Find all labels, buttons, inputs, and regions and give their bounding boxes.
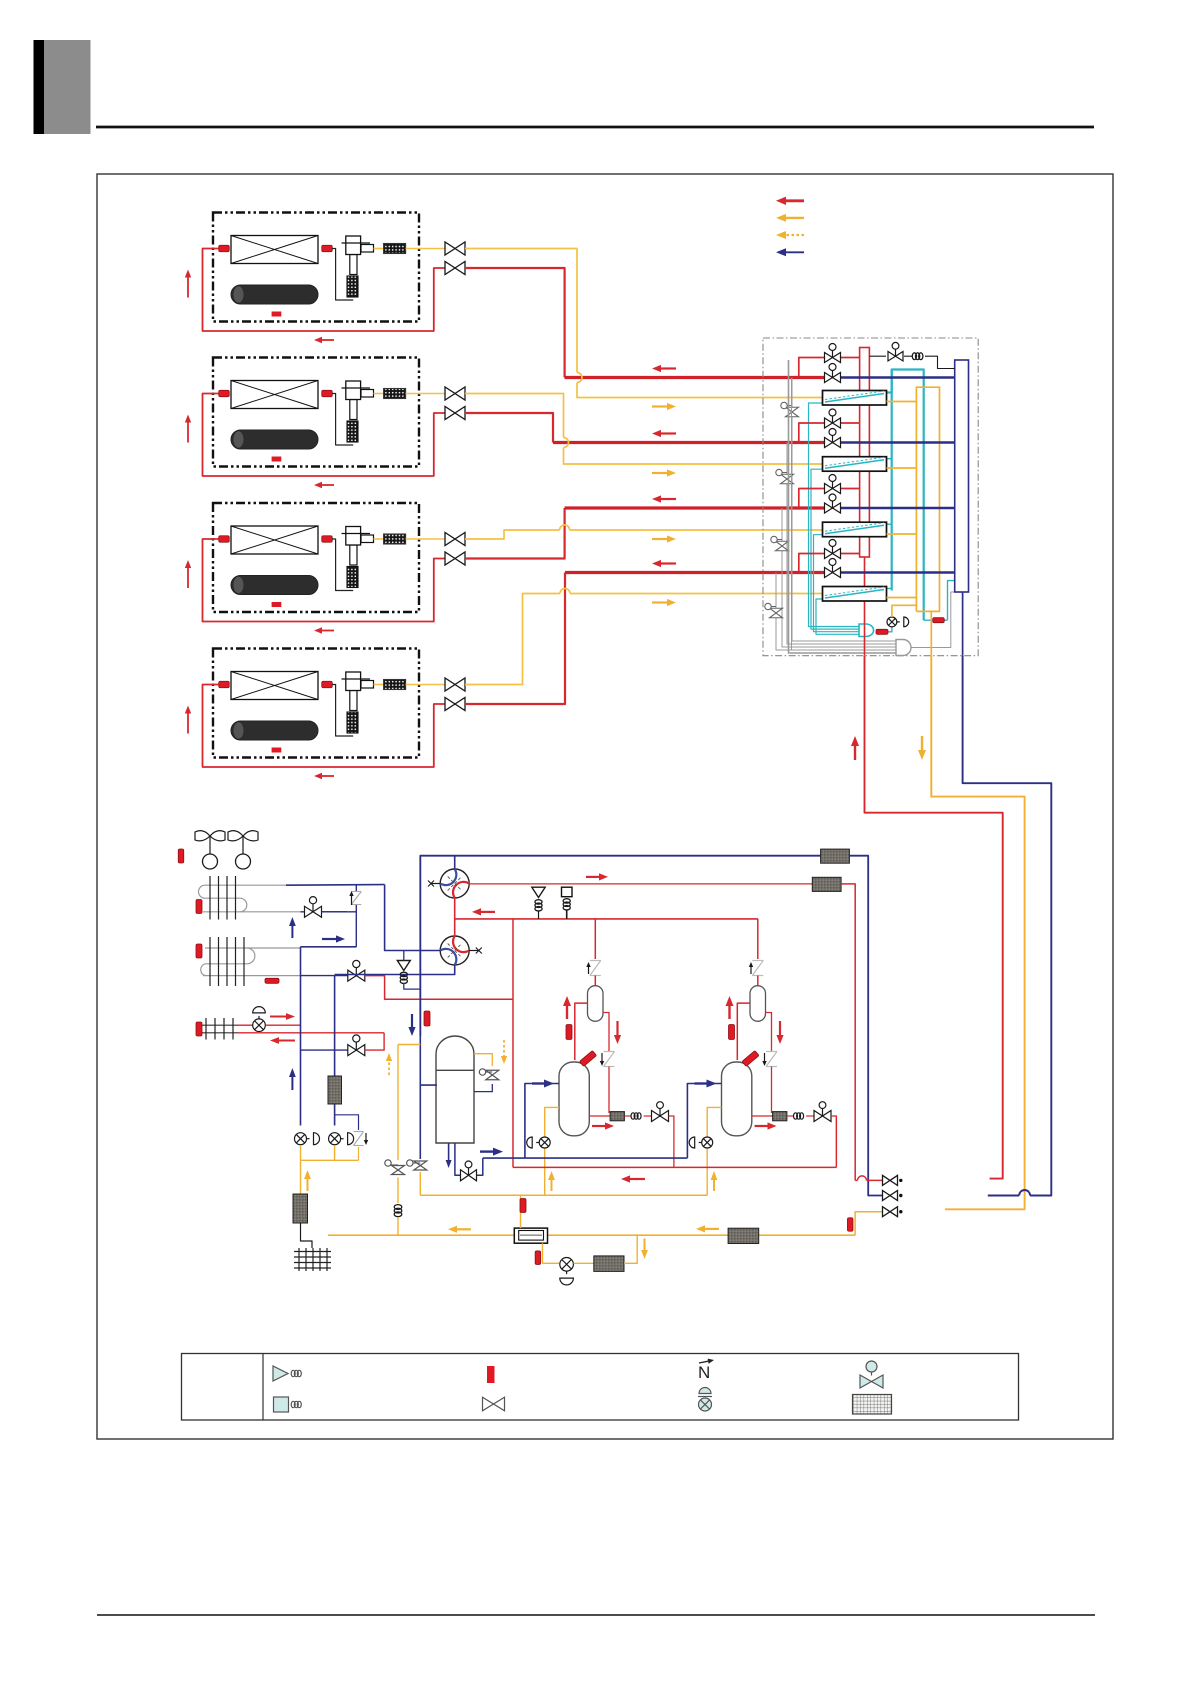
HR liquid solenoid valve 4 — [825, 549, 833, 559]
ODU coil 2 liquid valve — [301, 975, 349, 977]
HR subcool return line 3 — [814, 535, 860, 632]
indoor unit 1 fan sensor — [272, 312, 282, 317]
flow arrow red up — [854, 746, 856, 760]
ODU compressor 1 oil inject (yellow) — [545, 1107, 559, 1195]
indoor unit 4 EEV piping — [332, 685, 353, 737]
ODU discharge strainer (triangle) — [532, 887, 545, 897]
HR gas solenoid valve 1 — [825, 373, 833, 383]
legend arrow low-pressure gas (navy) — [786, 251, 804, 253]
indoor unit 1 flow arrow up — [187, 278, 189, 298]
indoor unit 4 EEV strainer — [347, 712, 358, 733]
HR subcool sight glass — [889, 627, 892, 632]
flow arrow yellow unit 2 — [652, 472, 667, 474]
HR gas branch section 4 (navy) — [824, 572, 841, 574]
ODU high pressure gas service valve — [883, 1175, 891, 1185]
indoor unit 1 cabinet — [213, 213, 419, 322]
flow arrow red unit 3 — [661, 498, 676, 500]
ODU accumulator outlet valve — [461, 1170, 469, 1181]
ODU oil sight glass 2 — [702, 1137, 713, 1148]
indoor unit 4 heat exchanger coil — [231, 672, 318, 700]
flow arrow red right 1 — [592, 1125, 605, 1127]
ODU riser B strainer — [328, 1076, 342, 1104]
HR gas line HX2 to suction header — [887, 467, 917, 469]
HR subcool gas return (yellow) — [892, 605, 917, 617]
ODU oil return strainer 2 — [773, 1112, 787, 1121]
ODU plate heat exchanger — [514, 1228, 547, 1243]
flow arrow red up 2 — [728, 1006, 730, 1019]
ODU fan sensor — [178, 849, 184, 863]
footer rule — [97, 1614, 1095, 1616]
ODU compressor 2 oil inject (yellow) — [707, 1107, 721, 1195]
ODU oil equalize tee (yellow) — [398, 1044, 420, 1046]
indoor unit 1 gas pipe out — [406, 248, 445, 250]
flow arrow yellow left 1 — [457, 1228, 471, 1230]
ODU coil 2 to liquid line (red) — [365, 976, 513, 1000]
ODU plate HX feed (yellow) — [520, 1195, 522, 1228]
ODU discharge check valve 1 — [590, 960, 601, 962]
indoor unit 2 cabinet — [213, 358, 419, 467]
indoor unit 1 EEV piping — [332, 249, 353, 301]
HR equalizer capillary coil — [904, 355, 912, 357]
svg-text:N: N — [698, 1363, 710, 1382]
ODU accumulator — [436, 1036, 474, 1143]
flow arrow navy down 1 — [411, 1014, 413, 1027]
indoor unit 1 liquid service valve — [445, 262, 455, 275]
HR service valve section 1 — [786, 407, 799, 412]
ODU suction manifold (navy) — [483, 1157, 688, 1159]
ODU coil 3 liquid return (red) — [238, 1032, 384, 1034]
ODU discharge branch 1 — [594, 919, 596, 959]
indoor unit 4 EEV stem — [350, 691, 357, 711]
indoor unit 4 fan roll — [231, 721, 318, 740]
indoor unit 3 EEV stem — [350, 545, 357, 565]
HR subcool heat exchanger 2 — [823, 457, 887, 472]
flow arrow yellow dashed up — [388, 1061, 390, 1075]
flow arrow navy right 2 — [695, 1082, 707, 1084]
ODU oil return valve 2 — [806, 1115, 813, 1117]
ODU suction gas service valve — [883, 1191, 891, 1201]
indoor unit 2 heat exchanger coil — [231, 381, 318, 409]
indoor unit 3 gas pipe out — [406, 538, 445, 540]
ODU plate HX feed sensor — [520, 1199, 526, 1213]
ODU compressor 1 top sensor — [579, 1051, 596, 1067]
flow arrow yellow down 2 — [644, 1239, 646, 1251]
4wv1 right port / discharge line (red thin) — [469, 883, 812, 885]
indoor unit 3 pipe sensor right — [322, 536, 333, 543]
indoor unit 2 gas service valve — [445, 387, 455, 400]
4wv1 top port — [454, 856, 456, 869]
liquid pipe unit 1 to HR box (red) — [465, 268, 565, 378]
indoor unit 2 pipe sensor left — [219, 390, 230, 397]
ODU discharge strainer — [812, 877, 841, 891]
indoor unit 1 pipe sensor left — [219, 245, 230, 252]
ODU oil collector line (yellow) — [300, 1145, 302, 1160]
ODU accumulator sensor — [424, 1011, 430, 1026]
HR liquid header (red) — [860, 348, 870, 558]
ODU oil separator 1 return — [603, 1013, 609, 1052]
indoor unit 1 EEV stem — [350, 255, 357, 275]
HR gas branch section 1 (navy) — [824, 377, 841, 379]
ODU oil return main riser — [835, 1116, 837, 1167]
HR service valve section 2 — [781, 474, 794, 479]
header rule — [96, 126, 1094, 129]
HR low pressure header outlet — [962, 592, 964, 656]
HR teal outlet sensor — [924, 619, 948, 621]
flow arrow yellow dashed down — [503, 1040, 505, 1056]
flow arrow red right 2 — [586, 876, 599, 878]
HR capillary line section 4 — [776, 573, 896, 651]
HR gas solenoid valve 2 — [825, 438, 833, 448]
ODU four-way valve 2 — [440, 936, 469, 965]
indoor unit 1 EEV strainer — [347, 276, 358, 297]
HR teal line to gas header — [948, 581, 955, 621]
ODU heat exchanger coil 1 — [205, 884, 286, 886]
HR service valve section 3 — [776, 541, 789, 546]
ODU defrost branch (red) — [365, 1033, 384, 1050]
ODU discharge header (red) — [455, 898, 758, 919]
ODU oil return capillary 1 — [624, 1115, 630, 1117]
indoor unit 3 pipe sensor left — [219, 536, 230, 543]
indoor unit 2 EEV stem — [350, 400, 357, 420]
HR capillary pair lines — [789, 360, 897, 653]
HR subcool return line 1 — [809, 403, 860, 627]
flow arrow red unit 4 — [661, 562, 676, 564]
legend arrow liquid (yellow) — [786, 217, 804, 219]
ODU liquid main (yellow) — [328, 1234, 514, 1236]
ODU oil return drop 1 — [669, 1116, 674, 1167]
HR capillary line section 1 — [792, 378, 896, 642]
ODU oil separator 2 inlet pipe — [737, 1003, 750, 1060]
indoor unit 3 EEV body — [346, 527, 361, 546]
indoor unit 4 gas pipe out — [406, 684, 445, 686]
ODU accumulator outlet trap — [455, 1143, 461, 1175]
ODU oil separator 1 inlet pipe — [575, 1003, 588, 1060]
ODU liquid service valve — [883, 1207, 891, 1217]
ODU oil return main (red) — [513, 1166, 836, 1168]
ODU oil separator 1 — [588, 986, 604, 1022]
indoor unit 2 gas-line strainer — [374, 393, 384, 395]
legend symbol fan motor — [273, 1366, 288, 1381]
indoor unit 2 liquid service valve — [445, 407, 455, 420]
ODU navy link coil1 — [301, 946, 357, 948]
ODU coil 3 sensor — [196, 1022, 202, 1036]
HR suction gas header (yellow U) — [916, 387, 939, 611]
legend symbol expansion valve — [699, 1388, 711, 1394]
HR gas line HX1 to suction header — [887, 401, 917, 403]
indoor unit 2 EEV strainer — [347, 421, 358, 442]
ODU dryer loop sensor — [535, 1251, 541, 1265]
flow arrow red up 1 — [566, 1006, 568, 1019]
HR subcool return line 4 — [816, 599, 859, 634]
indoor unit 2 flow arrow left — [322, 484, 334, 486]
legend symbol service valve — [866, 1361, 877, 1372]
HR liquid solenoid valve 1 — [825, 353, 833, 363]
ODU fan 2 — [228, 831, 243, 841]
flow arrow navy up 1 — [291, 926, 293, 938]
HR capillary line section 3 — [782, 508, 896, 647]
indoor unit 3 fan roll — [231, 576, 318, 595]
liquid pipe unit 4 to HR box (red) — [465, 573, 565, 705]
ODU dryer loop (yellow) — [543, 1243, 560, 1263]
ODU oil return capillary 2 — [787, 1115, 793, 1117]
indoor unit 1 EEV body — [346, 236, 361, 255]
ODU oil return line 1 — [589, 1115, 610, 1117]
flow arrow navy right low — [480, 1150, 493, 1152]
HR oil collector header — [896, 640, 911, 656]
ODU yellow drop capillary — [394, 1205, 402, 1210]
flow arrow red left — [279, 1040, 295, 1042]
HR subcool return line 2 — [811, 469, 859, 629]
legend symbol strainer — [853, 1395, 892, 1415]
indoor unit 2 flow arrow up — [187, 423, 189, 443]
flow arrow yellow left 2 — [705, 1228, 719, 1230]
indoor unit 4 cabinet — [213, 649, 419, 758]
HR gas line HX4 to suction header — [887, 597, 917, 599]
flow arrow red unit 1 — [661, 367, 676, 369]
HR gas branch section 3 (navy) — [824, 507, 841, 509]
ODU heat exchanger coil 3 — [203, 1024, 238, 1026]
ODU suction to service valve — [849, 856, 883, 1196]
ODU defrost branch valve — [301, 1049, 349, 1051]
HR liquid branch section 1 — [799, 358, 825, 378]
ODU coil 1 sensor — [196, 900, 202, 914]
gas pipe unit 2 to HR box (yellow) — [465, 394, 564, 438]
HR subcool heat exchanger 1 — [823, 391, 887, 406]
HR gas line HX3 to suction header — [887, 533, 917, 535]
main liquid run (red) HR to service valves — [865, 656, 1003, 1179]
indoor unit 3 EEV piping — [332, 539, 353, 591]
gas pipe unit 4 to HR box (yellow) — [465, 594, 560, 685]
ODU discharge branch 2 — [757, 919, 759, 959]
ODU coil 2 sensor 2 — [265, 978, 279, 983]
HR teal collector sensor — [876, 629, 888, 634]
indoor unit 4 liquid pipe out — [203, 685, 446, 768]
HR liquid branch section 3 — [799, 489, 825, 509]
indoor unit 2 liquid pipe out — [203, 394, 446, 477]
HR gas solenoid valve 3 — [825, 503, 833, 513]
ODU navy riser A — [300, 947, 302, 1126]
ODU liquid to service valve — [855, 1212, 883, 1236]
indoor unit 4 pipe sensor right — [322, 681, 333, 688]
ODU oil return check valve 2 — [766, 1051, 777, 1053]
indoor unit 1 gas-line strainer — [374, 248, 384, 250]
flow arrow yellow up 2 — [713, 1180, 715, 1191]
ODU check valve to suction — [335, 1115, 359, 1130]
ODU navy riser B — [334, 975, 336, 1126]
ODU yellow drop valve — [392, 1166, 405, 1171]
indoor unit 3 fan sensor — [272, 602, 282, 607]
indoor unit 2 fan sensor — [272, 457, 282, 462]
liquid pipe unit 2 to HR box (red) — [465, 413, 553, 443]
indoor unit 4 gas service valve — [445, 678, 455, 691]
diagram frame — [97, 174, 1113, 1439]
ODU accumulator bypass — [474, 1054, 492, 1066]
HR subcool heat exchanger 4 — [823, 587, 887, 602]
ODU discharge sensor 1 — [566, 1025, 572, 1040]
HR subcool feed 3 — [887, 523, 892, 525]
HR liquid solenoid valve 2 — [825, 418, 833, 428]
header black tab — [34, 40, 45, 134]
indoor unit 2 pipe sensor right — [322, 390, 333, 397]
ODU high pressure switch — [562, 887, 573, 897]
flow arrow yellow unit 4 — [652, 601, 667, 603]
indoor unit 4 EEV body — [346, 672, 361, 691]
ODU oil separator 2 return — [766, 1013, 772, 1052]
ODU compressor 2 — [722, 1062, 752, 1136]
indoor unit 3 liquid pipe out — [203, 539, 446, 622]
ODU discharge check valve 2 — [752, 960, 763, 962]
legend divider — [262, 1354, 264, 1421]
ODU coil 2 sensor — [196, 944, 202, 958]
legend symbol heater — [274, 1397, 289, 1412]
ODU suction-yellow link valve — [419, 1085, 421, 1159]
HR teal riser main — [887, 370, 924, 621]
ODU compressor 2 top sensor — [742, 1051, 759, 1067]
legend symbol sensor — [487, 1366, 495, 1383]
flow arrow yellow up small — [307, 1179, 309, 1191]
HR capillary line section 2 — [787, 443, 896, 645]
ODU oil return sight glass 2 — [329, 1133, 341, 1145]
ODU suction strainer (triangle) below 4wv2 line — [397, 961, 410, 971]
ODU liquid drop from header — [512, 919, 514, 999]
ODU oil return strainer 1 — [610, 1112, 624, 1121]
indoor unit 2 EEV piping — [332, 394, 353, 446]
HR liquid branch section 4 — [799, 554, 825, 573]
indoor unit 4 flow arrow left — [322, 775, 334, 777]
HR low pressure gas header (navy) — [955, 360, 969, 592]
flow arrow yellow unit 1 — [652, 405, 667, 407]
indoor unit 3 EEV strainer — [347, 567, 358, 588]
ODU oil return check valve 1 — [604, 1051, 615, 1053]
flow arrow yellow up 1 — [551, 1180, 553, 1191]
liquid pipe unit 3 to HR box (red) — [465, 508, 565, 559]
indoor unit 1 gas service valve — [445, 242, 455, 255]
flow arrow navy right — [322, 938, 336, 940]
indoor unit 2 fan roll — [231, 430, 318, 449]
HR service valve section 4 — [770, 608, 783, 613]
indoor unit 1 fan roll — [231, 285, 318, 304]
ODU oil return sight glass 1 — [295, 1133, 307, 1145]
ODU fan 1 — [195, 831, 210, 841]
HR gas solenoid valve 4 — [825, 568, 833, 578]
ODU oil inject manifold (yellow) — [420, 1194, 707, 1196]
indoor unit 1 pipe sensor right — [322, 245, 333, 252]
HR subcool feed 2 — [887, 458, 892, 460]
indoor unit 1 heat exchanger coil — [231, 236, 318, 264]
ODU oil return drop 2 — [831, 1116, 836, 1167]
indoor unit 4 fan sensor — [272, 748, 282, 753]
indoor unit 4 flow arrow up — [187, 714, 189, 734]
indoor unit 2 EEV body — [346, 381, 361, 400]
ODU oil cooler coil — [301, 1223, 313, 1248]
ODU coil 3 expansion valve — [238, 1024, 253, 1026]
HR subcool heat exchanger 3 — [823, 522, 887, 537]
indoor unit 1 flow arrow left — [322, 339, 334, 341]
ODU discharge to service valve — [841, 884, 855, 1181]
legend arrow subcool liquid (yellow dashed) — [786, 234, 804, 236]
ODU coil 1 gas line (navy) — [286, 884, 385, 887]
4wv2 bottom port — [335, 965, 455, 975]
main high pressure gas run (navy) — [963, 656, 1052, 1196]
4wv1 capped port — [431, 883, 440, 885]
ODU liquid drop to oil return — [512, 999, 514, 1167]
ODU oil sight glass 1 — [539, 1137, 550, 1148]
HR subcool feed 4 — [887, 588, 892, 590]
indoor unit 3 cabinet — [213, 503, 419, 612]
ODU heat exchanger coil 2 — [205, 947, 301, 949]
ODU moisture indicator — [560, 1258, 574, 1272]
ODU coil 1 check valve riser — [355, 885, 357, 892]
flow arrow red down 1 — [616, 1021, 618, 1035]
flow arrow red down 2 — [779, 1021, 781, 1035]
indoor unit 3 liquid service valve — [445, 552, 455, 565]
HR gas branch section 2 (navy) — [824, 442, 841, 444]
indoor unit 4 liquid service valve — [445, 698, 455, 711]
HR liquid header outlet — [864, 557, 866, 656]
gas pipe unit 1 to HR box (yellow) — [465, 249, 577, 373]
ODU accumulator drain stub — [448, 1143, 450, 1160]
ODU compressor 1 — [559, 1062, 589, 1136]
ODU discharge sensor 2 — [729, 1025, 735, 1040]
ODU oil return line 2 — [752, 1115, 773, 1117]
flow arrow navy up 2 — [291, 1077, 293, 1090]
flow arrow red right 2 — [755, 1125, 768, 1127]
ODU navy riser C (4wv ports) — [385, 885, 441, 951]
indoor unit 3 gas service valve — [445, 533, 455, 546]
ODU accumulator inlet (navy) — [420, 856, 437, 1085]
ODU compressor 2 suction (navy) — [687, 1084, 721, 1159]
HR unit enclosure — [763, 338, 978, 656]
HR liquid branch section 2 — [799, 423, 825, 443]
ODU four-way valve 1 — [440, 869, 469, 898]
ODU suction strainer — [821, 849, 850, 863]
flow arrow yellow unit 3 — [652, 538, 667, 540]
4wv2 capped port — [469, 950, 479, 952]
legend arrow high-pressure gas (red) — [786, 199, 804, 202]
legend symbol valve — [483, 1397, 494, 1411]
flow arrow red left 4 — [630, 1178, 645, 1180]
ODU compressor 1 suction (navy) — [525, 1084, 559, 1159]
indoor unit 3 flow arrow up — [187, 568, 189, 588]
ODU suction main (navy, top) — [420, 856, 820, 1036]
flow arrow navy right 1 — [532, 1082, 544, 1084]
HR equalizer valve — [888, 351, 896, 361]
flow arrow red left 3 — [481, 911, 495, 913]
flow arrow yellow down — [921, 736, 923, 750]
HR suction gas outlet — [930, 611, 932, 655]
header gray tab — [44, 40, 91, 134]
ODU accumulator bypass valve — [486, 1070, 499, 1075]
ODU oil separator 2 — [750, 986, 766, 1022]
indoor unit 1 liquid pipe out — [203, 249, 446, 332]
ODU filter dryer — [594, 1256, 624, 1272]
indoor unit 3 flow arrow left — [322, 630, 334, 632]
indoor unit 4 pipe sensor left — [219, 681, 230, 688]
HR oil collector outlet — [911, 592, 955, 648]
HR teal collector header — [859, 624, 874, 637]
indoor unit 4 gas-line strainer — [374, 684, 384, 686]
flow arrow red unit 2 — [661, 432, 676, 434]
legend box — [182, 1354, 1019, 1421]
ODU suction strainer block — [300, 1160, 302, 1194]
HR liquid solenoid valve 3 — [825, 484, 833, 494]
flow arrow red right — [270, 1016, 286, 1018]
indoor unit 3 gas-line strainer — [374, 538, 384, 540]
HR equalizer pipe — [869, 355, 886, 357]
indoor unit 3 heat exchanger coil — [231, 526, 318, 554]
ODU liquid line strainer — [728, 1228, 759, 1243]
ODU coil 1 liquid valve — [301, 911, 348, 913]
